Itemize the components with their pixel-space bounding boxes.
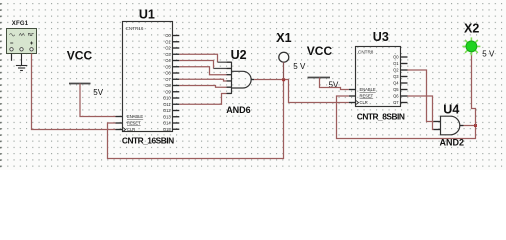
svg-text:CNTR_8SBIN: CNTR_8SBIN — [357, 112, 405, 122]
svg-text:XFG1: XFG1 — [12, 21, 29, 27]
svg-text:O5: O5 — [393, 87, 399, 92]
wire VCC1 to U1 ENABLE — [80, 84, 116, 117]
power VCC2 — [307, 44, 339, 90]
node U4 out junction — [474, 124, 477, 127]
svg-text:CLR: CLR — [127, 127, 135, 132]
svg-text:O2: O2 — [165, 46, 171, 51]
svg-text:X1: X1 — [276, 31, 291, 45]
svg-text:AND6: AND6 — [226, 105, 251, 115]
right pin stubs O0-O15 — [173, 36, 180, 130]
left pin stubs — [349, 90, 356, 103]
plus sign — [30, 42, 33, 45]
svg-text:O12: O12 — [163, 108, 171, 113]
wire U3 RESET to U4 out junction (bottom return) — [337, 96, 476, 139]
wire X1 stem — [283, 62, 285, 79]
right pin stubs O0-O7 — [401, 57, 408, 103]
svg-text:O6: O6 — [165, 71, 171, 76]
wire U2 out to X1 junction to U3 CLR — [254, 80, 349, 103]
svg-text:O2: O2 — [393, 68, 399, 73]
svg-text:O4: O4 — [393, 81, 399, 86]
counter U3 — [349, 30, 408, 122]
wire U1 O7 to U2 in4 — [179, 79, 226, 81]
svg-text:O9: O9 — [165, 89, 171, 94]
svg-text:O14: O14 — [163, 121, 171, 126]
svg-text:O0: O0 — [165, 33, 171, 38]
function generator XFG1 — [7, 21, 37, 53]
wire U1 O4 to U2 in2 — [179, 61, 213, 69]
svg-text:O7: O7 — [165, 77, 171, 82]
svg-text:5V: 5V — [329, 81, 339, 90]
node X1 junction — [282, 78, 285, 81]
svg-text:ENABLE: ENABLE — [360, 87, 376, 92]
svg-text:O7: O7 — [393, 100, 399, 105]
wire U3 O6 to U4 in2 — [408, 96, 434, 130]
left pin stubs — [116, 117, 123, 130]
minus sign — [10, 42, 13, 44]
svg-text:X2: X2 — [464, 22, 479, 36]
svg-text:RESET: RESET — [127, 121, 141, 126]
svg-text:O15: O15 — [163, 127, 171, 132]
clock wedge on CLR — [123, 127, 126, 132]
svg-text:O3: O3 — [165, 52, 171, 57]
svg-text:O1: O1 — [393, 61, 399, 66]
svg-text:U4: U4 — [443, 103, 459, 117]
ground — [16, 54, 27, 71]
wire XFG1+ to U1 CLR — [32, 54, 116, 130]
svg-text:ENABLE: ENABLE — [127, 114, 143, 119]
svg-text:O5: O5 — [165, 64, 171, 69]
svg-text:RESET: RESET — [360, 94, 374, 99]
wire U1 RESET to bottom rail to X1 junction — [108, 80, 284, 159]
sine glyph — [10, 34, 15, 37]
input stubs — [227, 62, 232, 93]
terminal circles — [10, 48, 13, 51]
counter U1 — [116, 8, 180, 146]
svg-text:5 V: 5 V — [293, 62, 306, 71]
svg-text:O6: O6 — [393, 94, 399, 99]
svg-text:VCC: VCC — [307, 44, 333, 58]
D body — [232, 71, 252, 88]
svg-text:CNTR_16SBIN: CNTR_16SBIN — [122, 136, 174, 146]
wire U1 O11 to U2 in6 — [179, 93, 226, 104]
left pin labels — [127, 114, 143, 132]
wire junction up to X2 — [472, 52, 476, 125]
svg-text:O13: O13 — [163, 114, 171, 119]
svg-text:VCC: VCC — [67, 49, 93, 63]
svg-text:AND2: AND2 — [440, 138, 465, 148]
svg-text:O4: O4 — [165, 58, 171, 63]
svg-text:O11: O11 — [163, 102, 171, 107]
svg-text:5 V: 5 V — [482, 50, 495, 59]
wire U1 O5 to U2 in3 — [179, 67, 226, 75]
svg-text:O3: O3 — [393, 74, 399, 79]
svg-text:CLR: CLR — [360, 100, 368, 105]
probe X2 (lit LED) — [462, 22, 495, 59]
svg-text:O1: O1 — [165, 39, 171, 44]
svg-text:U3: U3 — [373, 30, 389, 44]
svg-text:CNTR16: CNTR16 — [126, 26, 144, 31]
wire U3 O2 to U4 in1 — [408, 70, 434, 122]
output stub — [251, 79, 254, 81]
stub from XFG1 minus terminal — [11, 54, 13, 61]
svg-text:CNTR8: CNTR8 — [358, 49, 374, 54]
and gate U2 — [226, 48, 254, 115]
wire U1 O8 to U2 in5 — [179, 86, 226, 88]
triangle glyph — [19, 33, 25, 35]
power VCC1 — [67, 49, 104, 97]
svg-text:O10: O10 — [163, 96, 171, 101]
svg-text:O8: O8 — [165, 83, 171, 88]
probe X1 — [276, 31, 306, 71]
svg-text:5V: 5V — [93, 88, 103, 97]
and gate U4 — [434, 103, 465, 148]
extended flat edge — [231, 62, 233, 94]
svg-text:U2: U2 — [231, 48, 247, 62]
right pin labels — [163, 33, 171, 132]
wire U4 out to junction — [464, 125, 476, 127]
square glyph — [28, 33, 33, 35]
svg-text:U1: U1 — [139, 8, 155, 22]
svg-text:O0: O0 — [393, 55, 399, 60]
wire U1 O3 to U2 in1 — [179, 54, 217, 62]
wire VCC2 to U3 ENABLE — [320, 78, 349, 90]
